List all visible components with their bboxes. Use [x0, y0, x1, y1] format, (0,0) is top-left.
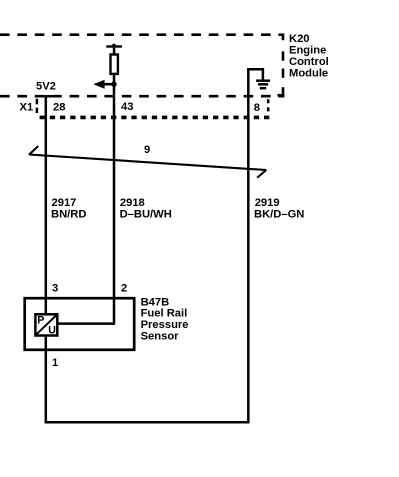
resistor top terminal bar	[106, 44, 122, 54]
arrow to 5V2	[93, 80, 114, 89]
svg-text:Pressure: Pressure	[141, 319, 189, 331]
connector X1 bottom thick dotted edge	[40, 116, 270, 120]
wire label 2918 D-BU/WH	[120, 197, 172, 220]
svg-text:9: 9	[144, 144, 150, 156]
harness crossing line 9 with end ticks	[29, 146, 266, 178]
wire 2917 from 5V2 feed through pin 28 to sensor pin 3, sensor ground wire, wire 2919 up to pin 8 and ECM ground	[46, 69, 263, 422]
svg-text:28: 28	[53, 102, 65, 114]
svg-text:U: U	[48, 324, 56, 336]
pressure transducer P/U square	[35, 314, 57, 336]
ECM box bottom dashed edge	[0, 95, 284, 98]
label K20 Engine Control Module	[289, 33, 329, 80]
svg-text:BN/RD: BN/RD	[51, 209, 86, 221]
ECM box top dashed edge	[0, 33, 284, 36]
svg-text:Fuel Rail: Fuel Rail	[141, 308, 188, 320]
svg-text:2917: 2917	[52, 197, 77, 209]
wire 2918 from resistor through pin 43 to sensor pin 2	[58, 75, 114, 324]
svg-text:Control: Control	[289, 56, 329, 68]
wire label 2917 BN/RD	[51, 197, 86, 220]
ECM box right dashed edge	[278, 35, 285, 97]
svg-text:Sensor: Sensor	[141, 330, 180, 342]
wire label 2919 BK/D-GN	[254, 197, 304, 221]
junction dot at arrow / wire 2918	[111, 82, 116, 87]
svg-text:Module: Module	[289, 68, 328, 80]
ground symbol hatch lines	[256, 81, 270, 89]
connector X1 right dotted edge	[267, 99, 270, 112]
sensor name label B47B Fuel Rail Pressure Sensor	[141, 296, 189, 342]
connector X1 left dotted edge	[36, 99, 39, 113]
svg-text:2918: 2918	[120, 197, 145, 209]
svg-text:3: 3	[52, 283, 58, 295]
svg-text:K20: K20	[289, 33, 310, 45]
svg-text:D–BU/WH: D–BU/WH	[120, 209, 172, 221]
svg-text:Engine: Engine	[289, 45, 326, 57]
sensor B47B box	[25, 298, 135, 350]
resistor body	[111, 55, 118, 74]
svg-text:43: 43	[121, 101, 133, 113]
svg-text:X1: X1	[20, 102, 34, 114]
svg-text:8: 8	[254, 102, 260, 114]
svg-text:5V2: 5V2	[36, 81, 56, 93]
svg-text:1: 1	[52, 357, 58, 369]
svg-text:2919: 2919	[255, 197, 280, 209]
svg-text:B47B: B47B	[141, 296, 170, 308]
svg-text:2: 2	[121, 283, 127, 295]
svg-text:BK/D–GN: BK/D–GN	[254, 209, 304, 221]
svg-text:P: P	[37, 315, 44, 327]
